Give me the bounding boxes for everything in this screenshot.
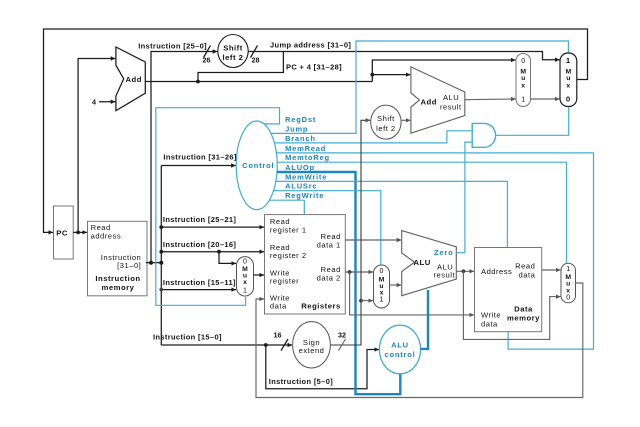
slash 16-bit width mark — [281, 339, 288, 351]
svg-text:ALU: ALU — [414, 258, 431, 267]
svg-text:Instruction [5–0]: Instruction [5–0] — [269, 377, 333, 386]
wire shift left 2 to branch adder — [401, 119, 410, 121]
instruction memory block — [88, 221, 148, 295]
svg-text:Instruction [25–0]: Instruction [25–0] — [138, 42, 207, 51]
wire PC write-back loop from jump mux output over the top to PC input — [44, 29, 588, 232]
svg-text:Shift: Shift — [223, 44, 243, 53]
svg-text:MemRead: MemRead — [285, 144, 326, 153]
svg-text:data: data — [270, 302, 287, 311]
wire MemtoReg control signal to write-back mux select — [277, 162, 566, 263]
wire PC value up to Add input — [78, 59, 115, 233]
wire branch target to branch mux 1 input — [465, 98, 516, 101]
wire constant 4 into Add — [99, 101, 115, 103]
wire read data 2 to ALUSrc mux 0 — [345, 271, 373, 273]
node bus junction 1 — [149, 261, 153, 265]
node instruction [15-0] junction — [264, 343, 268, 347]
wire instruction bus vertical — [160, 166, 162, 346]
slash 32-bit width mark — [339, 339, 346, 351]
wire AND gate output to branch mux select — [496, 107, 569, 135]
svg-text:data: data — [519, 271, 536, 280]
jump mux — [560, 53, 577, 107]
adder Add (PC+4) — [116, 47, 145, 111]
wire MemRead control signal to data memory read port — [277, 153, 594, 349]
wire ALUSrc mux output to ALU — [390, 284, 402, 286]
svg-text:Read: Read — [515, 261, 535, 270]
wire instruction [15-11] into RegDst mux 1 — [161, 289, 236, 291]
svg-text:0: 0 — [521, 58, 525, 65]
svg-text:result: result — [440, 103, 462, 112]
svg-text:RegDst: RegDst — [285, 115, 316, 124]
wire Branch control signal to AND gate — [274, 131, 471, 143]
svg-text:1: 1 — [243, 288, 247, 295]
svg-text:1: 1 — [566, 56, 571, 65]
svg-text:x: x — [243, 279, 247, 286]
wire ALUOp control signal to ALU control — [277, 172, 400, 394]
svg-text:ALUSrc: ALUSrc — [285, 182, 317, 191]
svg-text:left 2: left 2 — [223, 53, 244, 62]
svg-text:0: 0 — [380, 268, 384, 275]
wire ALU result to data memory address — [456, 270, 474, 272]
wire ALU control to ALU operation input — [420, 290, 428, 349]
svg-text:address: address — [91, 231, 122, 240]
wire branch mux output to jump mux 0 input — [531, 98, 560, 100]
svg-text:x: x — [566, 82, 570, 89]
svg-text:Instruction [15–0]: Instruction [15–0] — [153, 332, 222, 341]
ALU — [402, 231, 457, 296]
wire sign extend output to ALUSrc mux 1 and shift left 2 — [330, 120, 370, 345]
svg-text:ALUOp: ALUOp — [285, 163, 315, 172]
slash 28-bit width mark — [251, 46, 258, 58]
wire instruction bus out of memory — [146, 262, 161, 264]
svg-text:0: 0 — [566, 294, 570, 301]
wire PC+4 from Add output to branch area — [145, 81, 372, 83]
wire ALUSrc control signal to ALUSrc mux select — [274, 191, 381, 265]
wire memory read data to write-back mux 1 — [542, 269, 561, 271]
svg-text:Branch: Branch — [285, 134, 316, 143]
RegDst mux (write register select) — [237, 257, 254, 296]
wire MemWrite control signal to data memory write port — [276, 181, 508, 247]
svg-text:ALU: ALU — [391, 341, 409, 350]
data memory block — [475, 248, 542, 332]
svg-text:u: u — [521, 75, 525, 82]
svg-text:register 1: register 1 — [270, 226, 307, 235]
wire instruction [15-0] to sign extend — [161, 344, 292, 346]
ALU control oval — [379, 325, 420, 374]
node bus junction 2 — [159, 261, 163, 265]
svg-text:1: 1 — [521, 97, 525, 104]
svg-text:memory: memory — [102, 283, 135, 292]
wire sign extended value into ALUSrc mux 1 — [361, 300, 373, 302]
svg-text:data 2: data 2 — [317, 274, 341, 283]
svg-text:MemtoReg: MemtoReg — [285, 153, 330, 162]
svg-text:x: x — [521, 82, 525, 89]
svg-text:register: register — [270, 277, 299, 286]
node ALU result junction — [462, 269, 466, 273]
svg-text:0: 0 — [566, 95, 571, 104]
slash 26-bit width mark — [204, 46, 211, 58]
svg-text:Data: Data — [514, 304, 533, 313]
svg-text:32: 32 — [338, 331, 346, 340]
node junction to write register mux — [217, 250, 221, 254]
adder branch Add — [411, 67, 465, 133]
wire write-back data from mux to registers write data — [256, 283, 583, 398]
svg-text:Add: Add — [126, 75, 142, 84]
shifter Shift left 2 (jump) — [218, 35, 248, 68]
svg-text:[31–0]: [31–0] — [117, 261, 141, 270]
wire Jump control signal to jump mux select — [271, 41, 569, 133]
wire RegDst mux output to write register — [254, 274, 265, 276]
wire RegWrite control signal to registers — [269, 200, 304, 214]
wire read data 2 down to data memory write data — [350, 272, 474, 315]
wire instruction [20-16] down into RegDst mux 0 — [219, 252, 236, 264]
svg-text:1: 1 — [566, 266, 570, 273]
svg-text:4: 4 — [92, 98, 96, 107]
svg-text:Shift: Shift — [377, 114, 395, 123]
svg-text:Control: Control — [242, 161, 274, 170]
svg-text:x: x — [566, 287, 570, 294]
wire instruction [31-26] into control — [161, 165, 235, 167]
node PC+4 to branch adder junction — [370, 73, 374, 77]
wire PC+4 [31-28] up to jump address — [198, 52, 283, 82]
svg-text:16: 16 — [274, 331, 282, 340]
wire PC+4 into branch adder top input — [372, 74, 410, 76]
node PC output junction — [76, 231, 80, 235]
svg-text:RegWrite: RegWrite — [285, 191, 324, 200]
svg-text:extend: extend — [299, 346, 325, 355]
svg-text:register 2: register 2 — [270, 251, 307, 260]
svg-text:Instruction [31–26]: Instruction [31–26] — [163, 153, 236, 162]
svg-text:Instruction [25–21]: Instruction [25–21] — [163, 215, 236, 224]
svg-text:u: u — [566, 75, 570, 82]
svg-text:ALU: ALU — [443, 93, 459, 102]
wire Zero flag to AND gate — [456, 142, 472, 253]
node read data 2 junction — [348, 270, 352, 274]
svg-text:x: x — [380, 289, 384, 296]
svg-text:PC: PC — [56, 229, 68, 238]
svg-text:PC + 4 [31–28]: PC + 4 [31–28] — [286, 63, 342, 72]
AND gate (branch and zero) — [472, 123, 495, 147]
PC register — [54, 206, 74, 259]
svg-text:Zero: Zero — [434, 248, 453, 257]
node PC+4 branch junction — [196, 80, 200, 84]
write-back mux (MemtoReg) — [561, 263, 576, 303]
wire PC+4 up and right to branch mux 0 input — [372, 60, 515, 82]
wire PC output to instruction memory read address — [73, 231, 87, 233]
svg-text:Registers: Registers — [301, 302, 341, 311]
wire instruction [25-21] to read register 1 — [161, 226, 264, 228]
svg-text:Add: Add — [421, 98, 437, 107]
ALUSrc mux — [374, 265, 390, 308]
branch mux (PCSrc) — [516, 54, 531, 107]
sign extend oval — [293, 322, 331, 368]
wire ALU result around data memory to write-back mux 0 — [463, 271, 560, 339]
wire read data 1 to ALU — [345, 239, 401, 241]
svg-text:Jump: Jump — [285, 124, 308, 133]
registers block — [265, 215, 346, 314]
svg-text:Jump address [31–0]: Jump address [31–0] — [270, 41, 351, 50]
wire instruction [25-0] from bus up to shift left 2 — [151, 52, 217, 264]
svg-text:Address: Address — [481, 267, 512, 276]
node sign extend branch junction — [359, 299, 363, 303]
svg-text:Instruction [15–11]: Instruction [15–11] — [163, 278, 236, 287]
svg-text:26: 26 — [203, 56, 211, 65]
svg-text:Write: Write — [481, 310, 501, 319]
svg-text:memory: memory — [507, 313, 540, 322]
wire RegDst control signal loop to RegDst mux select — [156, 108, 280, 306]
wire instruction [5-0] to ALU control — [266, 345, 379, 389]
svg-text:left 2: left 2 — [376, 124, 395, 133]
svg-text:MemWrite: MemWrite — [285, 172, 327, 181]
svg-text:data: data — [481, 320, 498, 329]
svg-text:control: control — [384, 350, 415, 359]
svg-text:1: 1 — [380, 296, 384, 303]
svg-text:Instruction [20–16]: Instruction [20–16] — [163, 240, 236, 249]
svg-text:28: 28 — [252, 56, 260, 65]
wire instruction [20-16] to read register 2 — [161, 251, 264, 253]
shifter Shift left 2 (branch) — [371, 105, 401, 139]
control unit oval — [236, 121, 277, 210]
svg-text:result: result — [434, 271, 456, 280]
svg-text:0: 0 — [243, 258, 247, 265]
svg-text:data 1: data 1 — [317, 241, 341, 250]
wire jump address to jump mux 1 input — [248, 52, 559, 60]
